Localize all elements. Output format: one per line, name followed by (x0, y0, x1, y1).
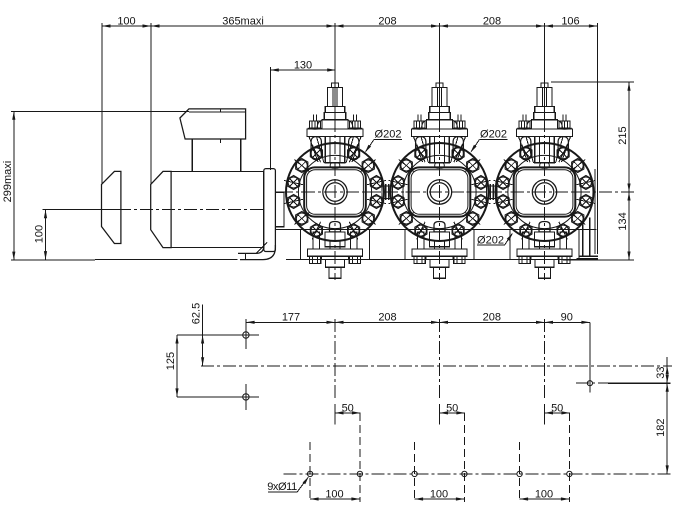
manifold line (276, 229, 597, 231)
svg-text:50: 50 (342, 402, 354, 414)
svg-text:208: 208 (378, 15, 396, 27)
dim 62.5 (177, 334, 233, 336)
label D202 pump2 (480, 139, 508, 141)
dims 100 (310, 498, 360, 500)
label 9xD11 (268, 491, 297, 493)
bottom view main centerline (201, 365, 672, 367)
flange connector 1-2 (382, 186, 393, 199)
pump1 suction flange (275, 192, 284, 227)
svg-text:9xØ11: 9xØ11 (267, 481, 297, 493)
flange connector 2-3 (487, 186, 498, 199)
svg-text:125: 125 (165, 352, 177, 370)
svg-text:177: 177 (282, 312, 300, 324)
svg-text:50: 50 (446, 402, 458, 414)
svg-text:90: 90 (561, 312, 573, 324)
motor axis centerline (46, 209, 119, 211)
svg-text:208: 208 (483, 15, 501, 27)
svg-text:50: 50 (551, 402, 563, 414)
svg-text:33: 33 (655, 366, 667, 378)
baseline (95, 259, 238, 261)
right support bracket (582, 223, 584, 257)
pump unit 1 (284, 83, 386, 278)
foundation hole left bottom (243, 394, 249, 400)
label D202 pump1 (374, 139, 402, 141)
drive bracket plate (264, 169, 276, 252)
foot gusset (256, 243, 267, 254)
motor foot (238, 243, 264, 253)
svg-text:Ø202: Ø202 (477, 235, 504, 247)
svg-text:100: 100 (535, 488, 553, 500)
terminal box (192, 139, 241, 171)
pump unit 2 (389, 83, 491, 278)
dimension row top (102, 25, 597, 27)
dim 130 (269, 67, 271, 170)
motor fan cover (102, 171, 121, 243)
svg-text:208: 208 (483, 312, 501, 324)
dims 33 and 182 (608, 382, 671, 384)
motor body (171, 171, 263, 247)
bottom hole row centerline (284, 473, 673, 475)
svg-text:208: 208 (378, 312, 396, 324)
bottom view top dim row (245, 319, 247, 349)
dim 125 (177, 396, 233, 398)
svg-text:100: 100 (430, 488, 448, 500)
terminal box lid (180, 109, 246, 139)
label D202 pump3 (477, 244, 504, 246)
svg-text:106: 106 (561, 15, 579, 27)
dims 50 (335, 412, 360, 414)
pump vertical centerlines (334, 23, 336, 119)
dim 299maxi (11, 110, 189, 112)
svg-text:Ø202: Ø202 (375, 129, 402, 141)
svg-text:62.5: 62.5 (191, 303, 203, 324)
svg-text:215: 215 (617, 126, 629, 144)
bottom view pump centerlines (334, 319, 336, 399)
svg-text:100: 100 (325, 488, 343, 500)
svg-text:299maxi: 299maxi (2, 161, 14, 203)
svg-text:130: 130 (294, 59, 312, 71)
svg-text:Ø202: Ø202 (480, 129, 507, 141)
svg-text:100: 100 (117, 15, 135, 27)
extension lines top (101, 23, 103, 184)
right hole (587, 381, 592, 386)
foundation hole left top (243, 332, 249, 338)
pump unit 3 (494, 83, 596, 278)
svg-text:100: 100 (34, 225, 46, 243)
svg-text:365maxi: 365maxi (222, 15, 264, 27)
bottom row foundation holes (307, 471, 312, 476)
dim 100 left (43, 209, 119, 211)
dims 215 and 134 (551, 81, 634, 83)
pump horizontal centerlines (280, 191, 394, 193)
svg-text:134: 134 (617, 212, 629, 230)
svg-text:182: 182 (655, 419, 667, 437)
motor body end cap (151, 171, 171, 247)
